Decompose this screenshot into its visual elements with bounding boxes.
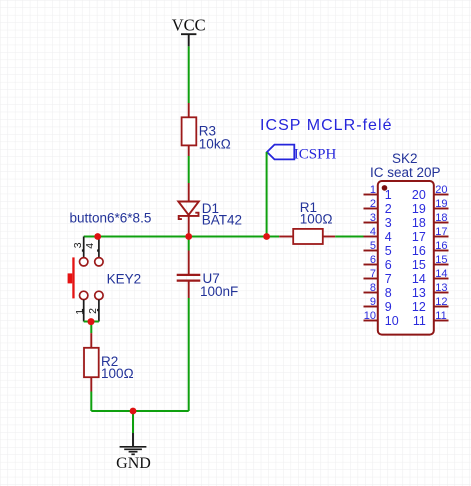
- pin 4 contact circle: [95, 258, 103, 266]
- svg-text:5: 5: [385, 244, 392, 258]
- svg-text:IC seat 20P: IC seat 20P: [370, 165, 441, 180]
- pin1 marker dot: [382, 185, 388, 191]
- svg-text:14: 14: [412, 272, 426, 286]
- svg-text:17: 17: [412, 230, 426, 244]
- svg-text:4: 4: [370, 226, 376, 238]
- pin 19 line: [434, 208, 449, 210]
- svg-text:ICSPH: ICSPH: [294, 146, 337, 162]
- svg-text:3: 3: [72, 242, 84, 248]
- junction dot at ICSPH node: [263, 233, 270, 240]
- svg-text:button6*6*8.5: button6*6*8.5: [70, 210, 152, 225]
- svg-text:9: 9: [370, 296, 376, 308]
- svg-text:2: 2: [370, 198, 376, 210]
- wire R2 to bottom rail (green net): [90, 392, 92, 412]
- wire ICSPH flag to node (green): [266, 152, 268, 237]
- svg-text:18: 18: [412, 216, 426, 230]
- wire U7 to bottom rail (green net): [188, 298, 190, 411]
- wire node to U7 (green net): [188, 237, 190, 251]
- wire GND drop (green): [132, 411, 134, 433]
- svg-text:11: 11: [435, 310, 446, 322]
- pin 1 lead: [83, 300, 85, 322]
- svg-text:6: 6: [385, 258, 392, 272]
- junction dot at D1 node: [185, 233, 192, 240]
- wire D1 top pin (red stub): [188, 183, 190, 202]
- svg-text:BAT42: BAT42: [202, 213, 242, 228]
- svg-text:7: 7: [385, 272, 392, 286]
- wire VCC to R3 (green net): [188, 46, 190, 103]
- connector body: [378, 181, 434, 335]
- svg-text:5: 5: [370, 240, 376, 252]
- ground: [116, 433, 151, 472]
- pin 10 line: [364, 320, 378, 322]
- junction dot at KEY2 pin4: [94, 233, 101, 240]
- ground stem: [132, 433, 134, 447]
- pin 1 contact circle: [80, 291, 88, 299]
- pin 4 lead: [98, 237, 100, 258]
- svg-text:16: 16: [435, 240, 447, 252]
- resistor R2: [84, 348, 134, 381]
- pin 6 line: [364, 264, 378, 266]
- svg-text:16: 16: [412, 244, 426, 258]
- wire node to R1 (red stub): [279, 236, 293, 238]
- pin 20 line: [434, 194, 449, 196]
- diode D1 (schottky): [178, 201, 242, 228]
- svg-text:4: 4: [84, 243, 96, 249]
- ground bar 4: [131, 453, 134, 455]
- bottom connecting bar: [84, 321, 99, 323]
- VCC supply symbol: [172, 15, 206, 46]
- connector SK2: [370, 151, 441, 335]
- svg-text:1: 1: [74, 309, 86, 315]
- svg-text:1: 1: [370, 184, 376, 196]
- pin 3 contact circle: [80, 258, 88, 266]
- svg-text:SK2: SK2: [392, 151, 418, 166]
- SK2 pin lines and numbers: [364, 184, 449, 328]
- pin 1 line: [364, 194, 378, 196]
- wire U7 top pin (red stub): [188, 251, 190, 276]
- bottom horizontal wire (green net): [91, 410, 188, 412]
- svg-text:17: 17: [435, 226, 447, 238]
- pin 2 lead: [98, 300, 100, 322]
- pin 13 line: [434, 292, 449, 294]
- main horizontal wire (green net): [84, 236, 280, 238]
- svg-text:15: 15: [412, 258, 426, 272]
- pin 15 line: [434, 264, 449, 266]
- svg-text:2: 2: [385, 202, 392, 216]
- capacitor U7: [177, 271, 239, 299]
- pin 12 line: [434, 306, 449, 308]
- actuator stem: [72, 257, 74, 298]
- ground bar 1: [120, 446, 147, 448]
- pin 3 lead tick: [82, 249, 84, 251]
- pin 7 line: [364, 278, 378, 280]
- pin 16 line: [434, 250, 449, 252]
- wire R3 top pin (red stub): [188, 103, 190, 117]
- wire D1 cathode to node (red stub): [188, 216, 190, 237]
- svg-text:19: 19: [435, 198, 447, 210]
- svg-text:3: 3: [370, 212, 376, 224]
- svg-text:10kΩ: 10kΩ: [199, 137, 231, 152]
- svg-text:11: 11: [413, 314, 426, 328]
- svg-text:100Ω: 100Ω: [300, 212, 333, 227]
- svg-text:15: 15: [435, 254, 447, 266]
- svg-text:7: 7: [370, 268, 376, 280]
- svg-text:6: 6: [370, 254, 376, 266]
- wire R2 top pin (red stub): [90, 333, 92, 348]
- wire KEY2 to R2 (green net): [90, 322, 92, 334]
- resistor R3: [182, 117, 231, 151]
- svg-text:GND: GND: [116, 455, 151, 472]
- svg-text:100nF: 100nF: [200, 284, 238, 299]
- svg-text:10: 10: [385, 314, 399, 328]
- junction dot at KEY2 bottom: [88, 318, 95, 325]
- wire R3 bottom pin (red stub): [188, 145, 190, 156]
- svg-text:VCC: VCC: [172, 15, 206, 34]
- pin 5 line: [364, 250, 378, 252]
- pin 14 line: [434, 278, 449, 280]
- svg-text:12: 12: [435, 296, 447, 308]
- svg-text:3: 3: [385, 216, 392, 230]
- svg-text:2: 2: [87, 308, 99, 314]
- pin 3 lead: [83, 237, 85, 258]
- svg-text:100Ω: 100Ω: [101, 366, 134, 381]
- svg-text:1: 1: [385, 188, 392, 202]
- svg-text:19: 19: [412, 202, 426, 216]
- pin 2 contact circle: [95, 291, 103, 299]
- ground bar 3: [129, 451, 138, 453]
- svg-text:4: 4: [385, 230, 392, 244]
- wire R1 to SK2 pin 4 (green net): [335, 236, 363, 238]
- svg-text:ICSP MCLR-felé: ICSP MCLR-felé: [260, 117, 392, 134]
- wire U7 bottom pin (red stub): [188, 281, 190, 298]
- svg-text:14: 14: [435, 268, 447, 280]
- pin 3 line: [364, 222, 378, 224]
- svg-text:8: 8: [385, 286, 392, 300]
- pin 1 lead tick: [82, 309, 84, 311]
- pin 2 line: [364, 208, 378, 210]
- svg-text:9: 9: [385, 300, 392, 314]
- wire R1 right pin (red stub): [323, 236, 335, 238]
- actuator button bump: [68, 273, 73, 283]
- svg-text:20: 20: [412, 188, 426, 202]
- svg-text:20: 20: [435, 184, 447, 196]
- pin 9 line: [364, 306, 378, 308]
- pin 4 lead tick: [97, 249, 99, 251]
- svg-text:13: 13: [412, 286, 426, 300]
- pin 17 line: [434, 236, 449, 238]
- svg-text:KEY2: KEY2: [107, 271, 142, 286]
- wire R3 to D1 (green net): [188, 156, 190, 183]
- resistor R1: [293, 200, 333, 244]
- svg-text:13: 13: [435, 282, 447, 294]
- wire R2 bottom pin (red stub): [90, 377, 92, 391]
- svg-text:18: 18: [435, 212, 447, 224]
- ground bar 2: [124, 448, 142, 450]
- pin 18 line: [434, 222, 449, 224]
- pin 8 line: [364, 292, 378, 294]
- push button KEY2: [68, 237, 142, 322]
- pin 4 line: [364, 236, 378, 238]
- pin 11 line: [434, 320, 449, 322]
- net flag ICSPH: [267, 145, 336, 163]
- svg-text:12: 12: [412, 300, 426, 314]
- junction dot at GND node: [130, 408, 137, 415]
- svg-text:8: 8: [370, 282, 376, 294]
- svg-text:10: 10: [364, 310, 376, 322]
- pin 2 lead tick: [97, 309, 99, 311]
